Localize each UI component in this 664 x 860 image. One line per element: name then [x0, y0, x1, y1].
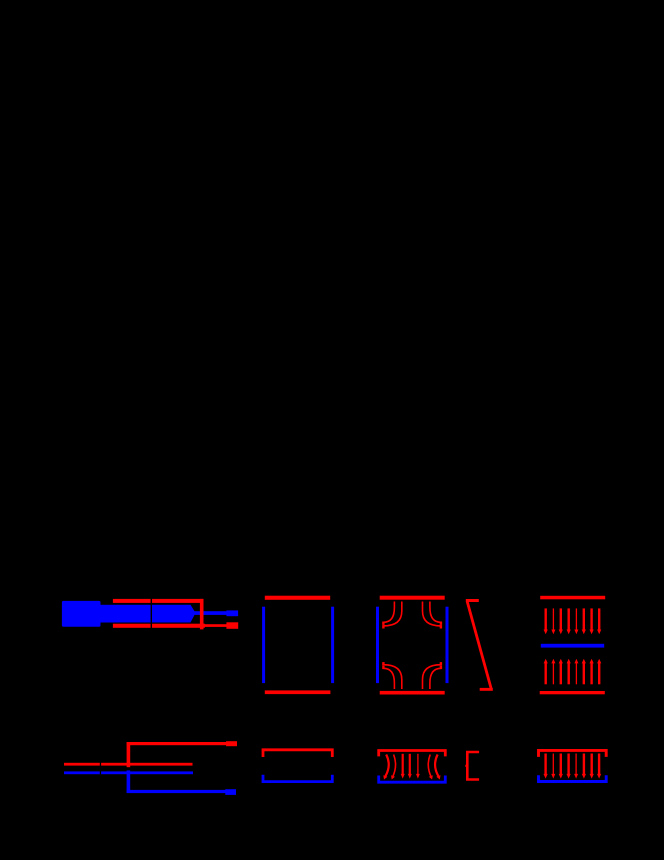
- top electrode bar (red): [113, 599, 203, 603]
- lower field line 3 (red): [559, 659, 563, 685]
- bottom bracket (blue): [539, 775, 607, 781]
- right electrode vertical (red): [200, 599, 204, 630]
- top lead arm (red): [127, 742, 227, 745]
- left spring bar (blue): [376, 607, 379, 683]
- tilted plate line (red): [467, 602, 491, 689]
- section divider line (black): [151, 599, 152, 629]
- top-right flexure arcs (red): [423, 602, 441, 626]
- field line 1 (red): [544, 754, 548, 779]
- upper field line 3 (red): [559, 608, 563, 634]
- upper field line 7 (red): [590, 608, 594, 634]
- fringing field line 7 (red): [435, 755, 440, 780]
- top cap segment (red): [466, 599, 479, 602]
- bottom electrode bar (red): [113, 624, 205, 628]
- top-left arc end ticks (red): [382, 622, 384, 625]
- beam tether line (blue): [194, 611, 227, 615]
- electrode link line (red): [204, 624, 228, 627]
- upper field line 6 (red): [582, 608, 586, 634]
- upper field line 2 (red): [551, 608, 555, 634]
- movable beam (blue): [100, 605, 191, 623]
- beam taper (blue): [190, 605, 194, 623]
- top bracket (red): [539, 750, 607, 757]
- field line 3 (red): [559, 754, 563, 779]
- top lead terminal pad (red): [226, 741, 237, 746]
- left spring bar (blue): [262, 607, 265, 683]
- bottom-left flexure arcs (red): [383, 665, 401, 689]
- bottom lead terminal pad (blue): [225, 789, 236, 795]
- straight field line 5 (red): [416, 754, 420, 779]
- bracket mid tick (red): [465, 765, 467, 767]
- bottom cap segment (red): [480, 688, 493, 691]
- lower field line 5 (red): [574, 659, 578, 685]
- top plate (red): [540, 596, 605, 600]
- right spring bar (blue): [331, 607, 334, 683]
- lower field line 8 (red): [597, 659, 601, 685]
- top-right arc end ticks (red): [440, 622, 442, 625]
- bottom plate line (blue): [64, 771, 193, 774]
- bottom-right arc end ticks (red): [440, 666, 442, 669]
- bottom bracket (blue): [263, 775, 332, 782]
- fringing field line 6 (red): [428, 755, 433, 780]
- upper field line 4 (red): [567, 608, 571, 634]
- bottom plate (red): [265, 690, 331, 694]
- bottom bracket (blue): [379, 776, 446, 783]
- top lead vertical (red): [127, 742, 131, 767]
- field line 4 (red): [567, 754, 571, 779]
- bottom lead arm (blue): [127, 790, 226, 793]
- upper field line 1 (red): [544, 608, 548, 634]
- bottom lead vertical (blue): [127, 770, 131, 793]
- beam terminal pad (blue): [226, 610, 238, 616]
- field line 7 (red): [590, 754, 594, 779]
- bottom plate (red): [380, 691, 445, 695]
- right spring bar (blue): [446, 607, 449, 683]
- lower field line 1 (red): [544, 659, 548, 685]
- bottom plate (red): [540, 691, 605, 694]
- straight field line 3 (red): [401, 754, 405, 779]
- upper field line 5 (red): [574, 608, 578, 634]
- lower field line 2 (red): [551, 659, 555, 685]
- middle electrode (blue): [541, 644, 604, 648]
- top plate line (red): [64, 763, 193, 766]
- top bracket (red): [379, 751, 446, 757]
- bracket (red): [467, 752, 479, 780]
- fringing field line 2 (red): [391, 755, 396, 780]
- field line 8 (red): [597, 754, 601, 779]
- top plate (red): [380, 596, 445, 600]
- lower field line 4 (red): [567, 659, 571, 685]
- top bracket (red): [263, 750, 332, 757]
- top plate (red): [265, 596, 330, 600]
- electrode terminal pad (red): [226, 622, 238, 629]
- field line 5 (red): [574, 754, 578, 779]
- lower field line 6 (red): [582, 659, 586, 685]
- fringing field line 1 (red): [383, 755, 388, 780]
- section divider line (black): [100, 762, 101, 775]
- field line 6 (red): [582, 754, 586, 779]
- lower field line 7 (red): [590, 659, 594, 685]
- bottom-left arc end ticks (red): [382, 666, 384, 669]
- straight field line 4 (red): [408, 754, 412, 779]
- field line 2 (red): [551, 754, 555, 779]
- upper field line 8 (red): [597, 608, 601, 634]
- top-left flexure arcs (red): [383, 602, 401, 626]
- bottom-right flexure arcs (red): [423, 665, 441, 689]
- anchor block (blue): [62, 601, 101, 627]
